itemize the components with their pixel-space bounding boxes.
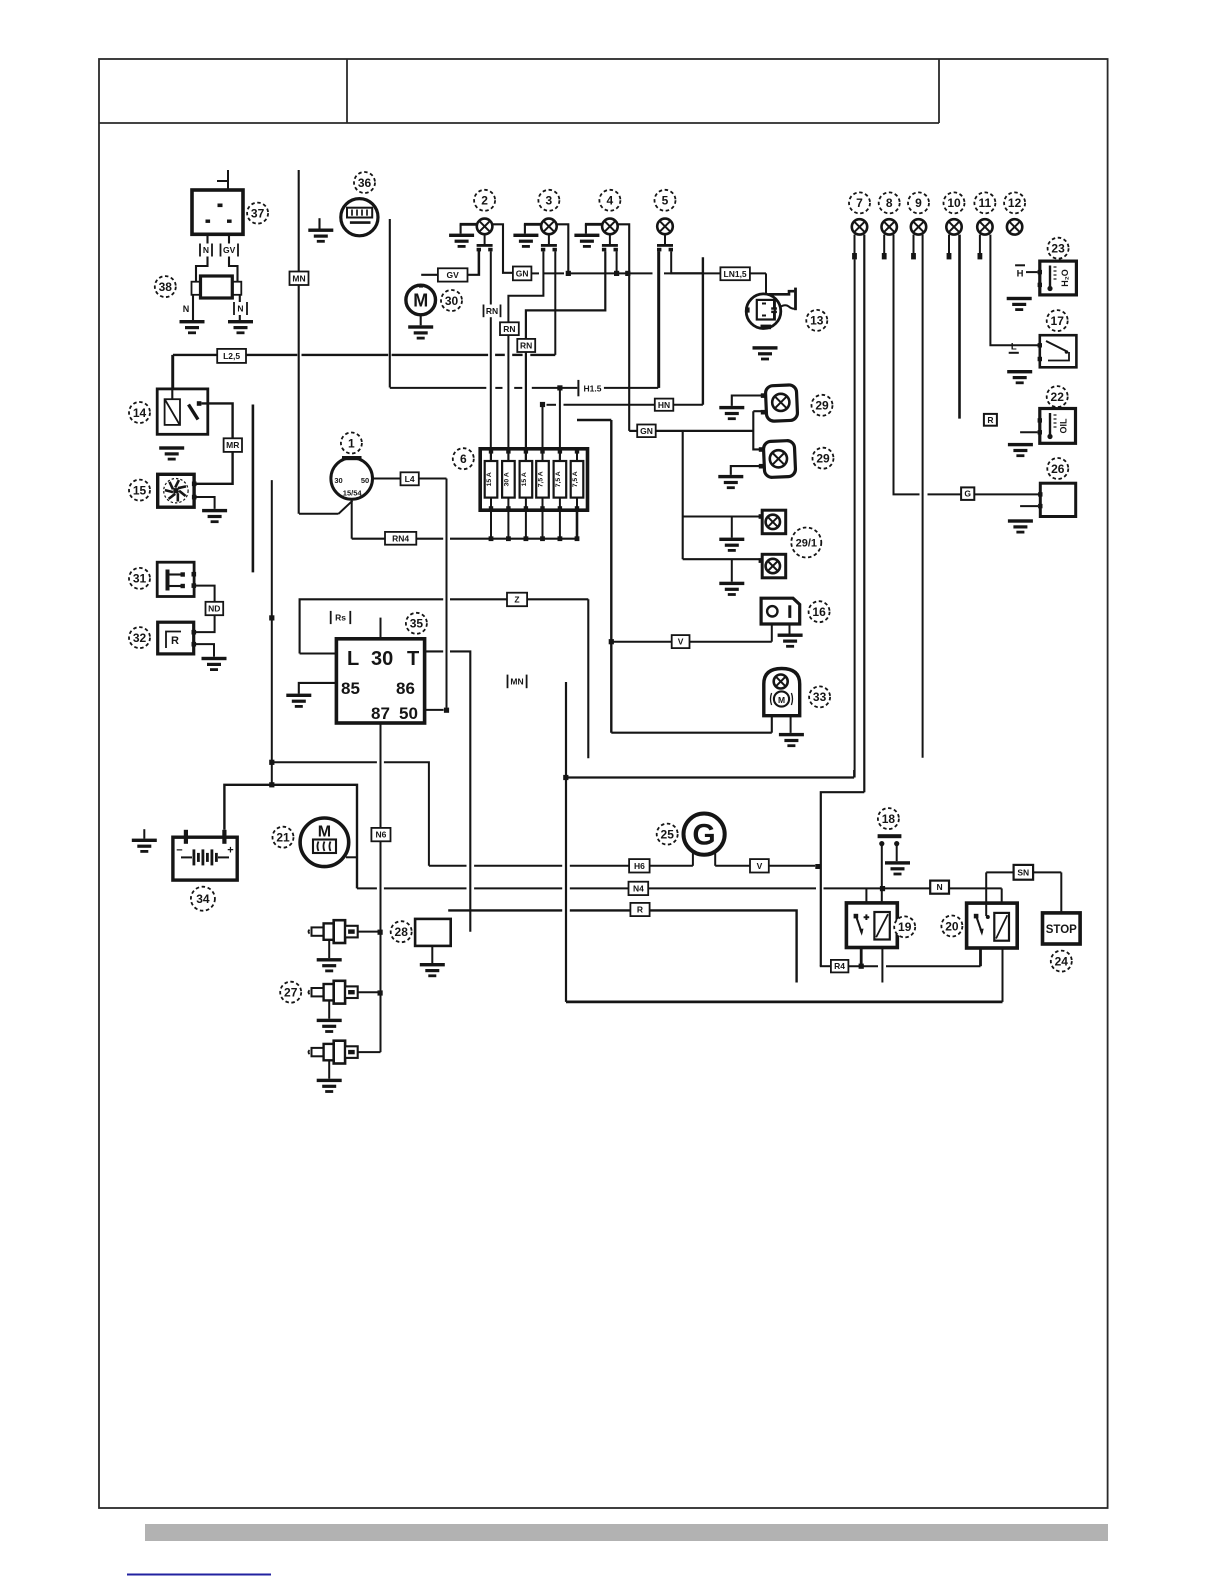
wire 30-feed vertical (271, 480, 273, 785)
wire LN1,5 (703, 272, 720, 274)
wire 1 to RN4 (351, 499, 353, 538)
wire label N (930, 881, 949, 894)
wire relay19 out (860, 948, 863, 967)
spark plug 27 (309, 981, 358, 1004)
svg-text:SN: SN (1017, 867, 1029, 877)
wire N (949, 887, 1002, 889)
stop light 24 (1043, 913, 1081, 944)
wire lamp7-right jog down (821, 792, 865, 966)
wire lamp3 right term to L2,5 (554, 251, 556, 355)
ground (420, 963, 445, 977)
wire HN riser (702, 257, 704, 405)
wire label N4 (629, 882, 649, 895)
wire G left stub (692, 853, 694, 866)
wire (853, 770, 855, 778)
svg-text:V: V (757, 861, 763, 871)
wire label R (630, 903, 649, 916)
stop switch 31 (157, 562, 196, 596)
temperature gauge 23 (H2O) (1038, 261, 1077, 295)
wire relay20 to bus (1002, 948, 1004, 1002)
wire relay19 coil out (881, 948, 883, 983)
wire 18 to ground (896, 845, 898, 861)
wire V (611, 641, 671, 643)
brake light switch 17 (1038, 335, 1077, 367)
wire GV to lamp2 (468, 251, 480, 275)
wire HN (564, 404, 656, 406)
svg-text:32: 32 (133, 631, 147, 645)
label circle 33 (809, 686, 830, 707)
wire R (448, 909, 562, 911)
junction V line (815, 864, 820, 869)
wire to ground (524, 224, 526, 233)
regulator box 37 (192, 170, 243, 234)
wire H1.5 dash (514, 387, 522, 389)
label circle 21 (273, 827, 294, 848)
wire 30-feed horizontal (272, 761, 377, 763)
ground (317, 958, 342, 972)
label circle 29 (812, 395, 833, 416)
wire label R4 (831, 960, 849, 973)
wire label RN (517, 339, 535, 352)
wire fuse F6 top corner (577, 419, 611, 421)
ground (286, 694, 311, 708)
junction (625, 271, 630, 276)
junction (378, 990, 383, 995)
wire 1 to L4 (373, 478, 401, 480)
wire lamp 7 left stub (854, 235, 856, 253)
label circle 13 (806, 310, 827, 331)
speedometer lamp 36 (341, 199, 378, 236)
ground (317, 1079, 342, 1093)
svg-text:24: 24 (1055, 954, 1069, 968)
wire 15 to ground (195, 497, 215, 509)
wire GN lower (655, 430, 753, 432)
svg-text:GN: GN (640, 426, 653, 436)
wire label MR (224, 438, 242, 452)
ground (308, 229, 333, 243)
svg-text:23: 23 (1051, 242, 1065, 256)
label circle 1 (341, 433, 362, 454)
wire H6 (570, 865, 630, 867)
junction (614, 271, 619, 276)
wire L2,5 (495, 354, 505, 356)
wire 16 to ground (789, 624, 791, 634)
junction (609, 639, 614, 644)
label circle 10 (944, 192, 965, 213)
wire 33 left stub (771, 716, 773, 733)
svg-text:R: R (637, 905, 643, 915)
wire to 33 (611, 732, 772, 734)
wire 29 to ground (732, 396, 761, 406)
wire G right stub (714, 852, 716, 866)
wire 30 to ground (420, 315, 422, 326)
wire lamp10 right (958, 235, 961, 419)
svg-text:Rs: Rs (335, 613, 346, 623)
wire G line to 26 (974, 493, 1040, 495)
svg-text:7,5 A: 7,5 A (572, 471, 579, 487)
wire L2,5 (530, 354, 555, 356)
wire G line (928, 493, 962, 495)
CDI unit 28 (415, 919, 451, 946)
page outer frame (99, 59, 1108, 1508)
svg-text:Z: Z (514, 595, 519, 605)
turn relay 35 (336, 639, 424, 723)
wire lamp2 to GN (492, 224, 513, 272)
label circle 29/1 (791, 528, 821, 558)
wire label RN (500, 322, 519, 335)
wire L2,5 (173, 354, 297, 356)
svg-text:19: 19 (898, 920, 912, 934)
wire N to relay19 plus (865, 888, 867, 917)
label circle 12 (1004, 192, 1025, 213)
junction (880, 886, 885, 891)
svg-text:7: 7 (856, 196, 863, 210)
wire GN lower (629, 430, 637, 432)
ignition switch 1 (331, 456, 373, 499)
svg-text:6: 6 (460, 452, 467, 466)
svg-text:L2,5: L2,5 (223, 351, 240, 361)
wire MN to switch (299, 513, 339, 515)
wire lamp 4 stem (609, 234, 611, 244)
svg-text:N: N (237, 304, 243, 314)
svg-text:21: 21 (276, 831, 290, 845)
label circle 4 (599, 190, 620, 211)
wire H6 (474, 865, 562, 867)
wire label H (1015, 265, 1025, 279)
battery 34 (173, 830, 237, 880)
wire fuse bottom lead (507, 510, 509, 539)
terminal (911, 253, 916, 259)
wire L2,5 (392, 354, 489, 356)
svg-text:34: 34 (196, 892, 210, 906)
spark plug 28b (309, 1041, 358, 1064)
wire relay pin T (425, 650, 444, 652)
wire fuse bottom lead (542, 510, 544, 539)
wire label R (984, 414, 997, 426)
starter motor 21 (300, 818, 349, 867)
label circle 31 (129, 568, 150, 589)
label circle 14 (129, 402, 150, 423)
label circle 27 (280, 982, 301, 1003)
label circle 18 (878, 808, 899, 829)
label circle 11 (974, 192, 995, 213)
wire SN to relay20 (985, 872, 987, 916)
wire to ground (585, 224, 587, 233)
wire V line (715, 865, 750, 867)
terminal (882, 253, 887, 259)
wire H6 (429, 865, 467, 867)
pilot lamp unit 33 (764, 669, 800, 716)
svg-text:RN: RN (486, 306, 498, 316)
svg-text:RN: RN (520, 341, 532, 351)
wire diagonal to 15/54 (339, 501, 353, 514)
svg-text:MN: MN (292, 273, 305, 283)
wire GN (664, 272, 703, 274)
position lamp 29/1 b (759, 554, 786, 578)
wire GN to 29/1 a (683, 515, 761, 517)
wire 26 to ground (1020, 505, 1038, 507)
svg-text:H1.5: H1.5 (584, 383, 602, 393)
label circle 37 (247, 203, 268, 224)
junction (859, 964, 864, 969)
fuse F6 7,5 A (571, 449, 584, 541)
wire plug to N6 (358, 991, 378, 993)
svg-text:28: 28 (395, 925, 409, 939)
wire R (570, 910, 797, 982)
svg-text:M: M (318, 824, 331, 841)
ground (159, 446, 184, 460)
wire 32 to ground (195, 644, 215, 657)
wire to horn (765, 273, 767, 294)
wire H1.5 (532, 387, 578, 389)
label circle 8 (879, 192, 900, 213)
stop switch 32 (158, 622, 196, 654)
wire lamp2 right term to fuse F1 (490, 251, 492, 461)
svg-text:RN4: RN4 (392, 533, 409, 543)
label circle 6 (453, 448, 474, 469)
ground (1008, 443, 1033, 457)
ground (1007, 370, 1032, 384)
flasher unit 14 (157, 389, 208, 434)
brake switch 18 (878, 834, 902, 846)
svg-text:30: 30 (334, 476, 342, 485)
wire fuse bottom lead (490, 510, 492, 539)
wire 29 pair link (753, 411, 761, 449)
wire SN (986, 871, 1014, 873)
wire 18 to relay19 (881, 845, 883, 912)
wire HN to fuse F4 (542, 405, 544, 462)
wire label G (961, 487, 974, 500)
cooling fan 15 (158, 474, 197, 507)
svg-text:50: 50 (361, 476, 369, 485)
wire lamp3 bar to GN (557, 224, 569, 273)
wire label N (233, 302, 248, 315)
svg-text:3: 3 (546, 194, 553, 208)
label circle 30 (441, 290, 462, 311)
wire lamp4 right term to GN (616, 251, 618, 273)
wire R4 up to relay20 (979, 948, 982, 966)
wire Z (450, 598, 507, 600)
svg-text:N: N (183, 304, 190, 314)
svg-text:H₂O: H₂O (1060, 269, 1070, 287)
svg-text:27: 27 (284, 986, 298, 1000)
label circle 3 (538, 190, 559, 211)
svg-text:H: H (1017, 269, 1024, 280)
wire label Rs (330, 611, 352, 624)
svg-text:ND: ND (208, 604, 220, 614)
svg-text:L: L (1011, 342, 1017, 353)
svg-text:4: 4 (607, 194, 614, 208)
label circle 36 (354, 172, 375, 193)
junction (563, 775, 568, 780)
svg-text:38: 38 (159, 280, 173, 294)
wire lamp5 left term to H1.5 (658, 251, 660, 388)
wire lamp 3 stem (548, 234, 550, 244)
wire N4 (474, 887, 562, 889)
svg-text:15 A: 15 A (486, 472, 493, 486)
svg-text:9: 9 (915, 196, 922, 210)
ground (317, 1019, 342, 1033)
ground (228, 320, 253, 334)
ground (202, 509, 227, 523)
wire fuse bottom lead (576, 510, 579, 539)
svg-text:STOP: STOP (1046, 924, 1077, 936)
wire N4 (570, 887, 629, 889)
wire L4 to riser (419, 478, 447, 480)
wire lamp2 left term (478, 251, 480, 274)
wire label MN (507, 675, 528, 689)
wire SN to STOP (1060, 872, 1062, 913)
svg-text:25: 25 (661, 827, 675, 841)
wire L2,5 into 14 (171, 355, 173, 399)
wire label L (1009, 342, 1019, 353)
wire plug to N6 (358, 931, 378, 933)
wire label MN (290, 272, 309, 286)
wire fuse bottom lead (559, 510, 561, 539)
wire H6 riser (384, 762, 429, 866)
svg-text:31: 31 (133, 572, 147, 586)
fuse holder 38 (192, 276, 242, 298)
junction (444, 708, 449, 713)
wire lamp11 right to 17 (L) (990, 235, 1039, 346)
label circle 19 (894, 916, 915, 937)
svg-text:OIL: OIL (1059, 418, 1069, 434)
svg-text:16: 16 (812, 605, 826, 619)
wire lamp 10 left stub (948, 235, 950, 253)
svg-text:15/54: 15/54 (343, 489, 363, 498)
wire label GN (637, 425, 656, 438)
wire lamp4 bar down to GN (618, 224, 630, 431)
wire H1.5 (604, 387, 658, 389)
wire SN (1033, 871, 1062, 873)
wire N4 (384, 887, 467, 889)
wire 38 left to ground (192, 295, 194, 320)
wire H1.5 (390, 387, 487, 389)
svg-text:33: 33 (813, 690, 827, 704)
ground (513, 234, 538, 248)
fuse F3 15 A (520, 449, 533, 541)
wire label L2,5 (217, 349, 246, 363)
junction (540, 402, 545, 407)
spark plug 28a (309, 920, 358, 943)
wire label ND (206, 602, 224, 615)
label circle 38 (155, 276, 176, 297)
wire relay pin 50 (425, 709, 444, 711)
wire lamp 5 stem (664, 234, 666, 244)
svg-text:30: 30 (371, 648, 393, 670)
wire 33 to ground (790, 716, 792, 733)
wire plug ground stem (328, 940, 330, 958)
light switch 16 (761, 598, 800, 624)
wire H1.5 riser to lamp5 (657, 251, 659, 388)
wire 38 right to ground (239, 295, 241, 320)
wire L2,5 (512, 354, 522, 356)
wire H1.5 to fuse F5 (559, 388, 561, 461)
wire plug to N6 (358, 1051, 381, 1053)
wire N down to relay20 coil (1001, 888, 1003, 913)
wire T down (450, 651, 470, 931)
svg-text:LN1,5: LN1,5 (724, 269, 747, 279)
svg-text:GV: GV (223, 245, 236, 255)
ground (202, 657, 227, 671)
wire to ground (460, 224, 462, 233)
svg-text:37: 37 (251, 206, 265, 220)
terminal (852, 253, 857, 259)
svg-text:85: 85 (341, 679, 360, 698)
junction (269, 615, 274, 620)
svg-text:35: 35 (410, 617, 424, 631)
starter relay 19 (846, 903, 897, 948)
label circle 34 (191, 887, 215, 911)
svg-text:L: L (347, 648, 359, 670)
ground (1008, 519, 1033, 533)
svg-text:M: M (778, 695, 785, 705)
svg-text:11: 11 (979, 196, 992, 210)
wire battery plus feed (224, 785, 357, 889)
wire lamp5 right term to GN node (671, 251, 703, 273)
wire lamp7 left long (854, 259, 856, 777)
fuse box 6 (480, 449, 587, 510)
wire 31 to 32 (ND) (195, 586, 215, 633)
junction (378, 930, 383, 935)
svg-text:8: 8 (886, 196, 893, 210)
wire label N (199, 244, 213, 257)
svg-text:L4: L4 (405, 474, 415, 484)
wire to starter motor (346, 856, 357, 858)
ground (778, 634, 803, 648)
wire V to 16 (690, 641, 772, 643)
wire relay pin 87 down (N6) (380, 723, 382, 1052)
wire lamp left bar (460, 223, 477, 226)
wire lamp9 right long (922, 235, 924, 758)
wire label GV (220, 244, 240, 257)
wire label GN (513, 267, 532, 281)
ground (885, 861, 910, 875)
svg-text:R: R (171, 635, 179, 647)
svg-text:MR: MR (226, 440, 239, 450)
svg-text:R4: R4 (834, 961, 845, 971)
footer gray bar (145, 1524, 1108, 1541)
ground (574, 234, 599, 248)
horn 13 (745, 288, 796, 330)
wire lamp left bar (585, 223, 602, 226)
wire bottom bus (566, 1001, 1003, 1004)
wire MN vertical (298, 170, 300, 514)
svg-text:1: 1 (348, 436, 355, 450)
svg-text:10: 10 (947, 196, 961, 210)
wire N4 (357, 887, 377, 889)
wiper motor 30 (406, 284, 436, 315)
generator 25 (684, 814, 725, 855)
svg-text:−: − (176, 845, 182, 857)
ground (779, 733, 804, 747)
wire label LN1,5 (720, 267, 750, 280)
svg-text:87: 87 (371, 704, 390, 723)
svg-text:N6: N6 (375, 830, 386, 840)
wire label V (672, 635, 690, 648)
wire H to 23 (1026, 271, 1038, 273)
wire 16 left stub (771, 624, 773, 642)
rectifier 26 (1038, 483, 1076, 516)
svg-text:13: 13 (810, 314, 824, 328)
ground (1007, 297, 1032, 311)
turn lamp 29 (rear) (759, 440, 796, 477)
wire L4 riser down to 50 (446, 479, 448, 708)
wire R4 (820, 965, 832, 967)
ground (449, 234, 474, 248)
svg-text:N: N (203, 245, 209, 255)
wire 14 to 15 (MR) (195, 403, 233, 483)
